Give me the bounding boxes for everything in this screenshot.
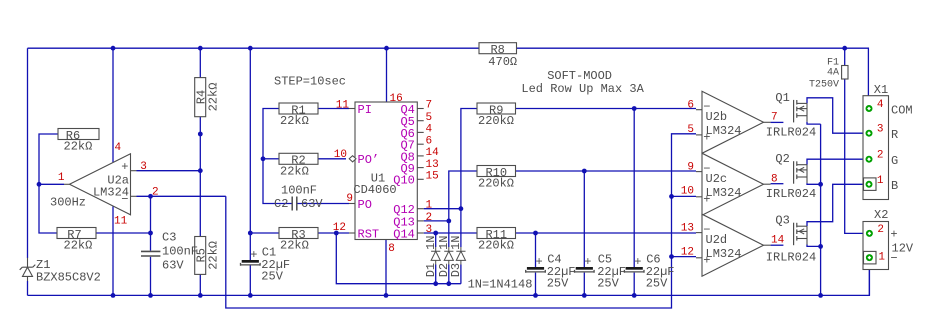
node junction +12V / U2a pin4	[111, 46, 116, 51]
wire U1 Q14 pin 3 to R11	[424, 232, 477, 234]
node junction U2a pin11 / ground	[111, 293, 116, 298]
wire D1 bottom	[435, 265, 437, 284]
wire X2 pin 1 to ground rail	[868, 261, 870, 296]
node junction C6 / ground	[632, 293, 637, 298]
node junction R11 / C4	[533, 231, 538, 236]
resistor R8	[479, 43, 517, 54]
connector X1 pin 3	[866, 130, 873, 137]
svg-text:−: −	[703, 162, 710, 176]
svg-text:22kΩ: 22kΩ	[206, 83, 220, 112]
resistor R4	[195, 78, 206, 117]
wire D3 bottom	[460, 265, 462, 284]
wire U1 Q13 pin 2	[424, 220, 449, 222]
svg-text:16: 16	[390, 93, 403, 105]
svg-text:+: +	[535, 255, 542, 269]
svg-text:1: 1	[878, 252, 885, 264]
svg-text:LM324: LM324	[706, 124, 742, 138]
node junction D2 / return	[446, 281, 451, 286]
node junction source bus / ground	[818, 293, 823, 298]
node junction +12V / C1	[248, 46, 253, 51]
wire R10 right to U2c - input	[516, 170, 697, 172]
diode D3 1N4148	[456, 247, 465, 265]
node junction R3-RST / diode return	[334, 231, 339, 236]
svg-text:5: 5	[426, 112, 433, 124]
svg-text:10: 10	[334, 149, 347, 161]
wire source bus to ground	[820, 124, 822, 295]
svg-text:6: 6	[426, 135, 433, 147]
resistor R1	[279, 103, 318, 114]
wire R1 right to U1 PI	[318, 108, 349, 110]
connector X1 pin 2	[866, 156, 873, 163]
wire +12V top rail	[28, 47, 480, 49]
wire Q13 up to R10	[449, 171, 477, 221]
svg-text:4: 4	[426, 124, 433, 136]
capacitor C4 (electrolytic)	[527, 267, 544, 270]
node junction R9 / C6	[632, 106, 637, 111]
svg-text:D1: D1	[424, 263, 438, 277]
svg-text:2: 2	[877, 150, 884, 162]
fuse F1 4A T250V	[842, 66, 848, 80]
svg-text:1N: 1N	[424, 235, 438, 249]
svg-text:IRLR024: IRLR024	[766, 126, 816, 140]
svg-text:LM324: LM324	[706, 247, 742, 261]
svg-text:−: −	[703, 223, 710, 237]
svg-text:9: 9	[687, 162, 694, 174]
wire C6 branch down	[633, 109, 635, 268]
wire feedback node R6/R7/output of U2a	[39, 134, 59, 233]
wire U2b output to Q1 gate	[771, 121, 784, 123]
wire R1/R2/C2 left chain	[263, 109, 292, 204]
node junction Q2 source / source bus	[818, 182, 823, 187]
svg-text:7: 7	[771, 111, 778, 123]
wire U2a pin 11 to ground rail	[112, 207, 114, 296]
svg-text:LM324: LM324	[706, 186, 742, 200]
wire C5 branch down	[583, 171, 585, 267]
svg-text:SOFT-MOOD: SOFT-MOOD	[547, 69, 612, 83]
svg-text:−: −	[121, 192, 128, 206]
transistor Q3 IRLR024	[793, 223, 795, 246]
wire Q1 source jog	[807, 122, 821, 124]
wire U2a pin 3 to R4/R5 divider node	[137, 170, 201, 172]
wire R2 left branch	[263, 158, 279, 160]
wire R4/R5 divider vertical	[199, 48, 201, 295]
node junction Q3 source / source bus	[818, 244, 823, 249]
svg-text:9: 9	[346, 193, 353, 205]
svg-text:PI: PI	[358, 103, 372, 117]
wire U1 Q12 pin 1	[424, 208, 461, 210]
node junction Vref / U2d+	[669, 254, 674, 259]
node junction R7 / C3	[148, 231, 153, 236]
wire R11 right to U2d - input	[516, 232, 697, 234]
connector X1 pin 1	[866, 181, 873, 188]
svg-text:12: 12	[681, 247, 694, 259]
node junction Q12 / D3	[459, 206, 464, 211]
svg-text:25V: 25V	[261, 270, 283, 284]
node junction Vref / U2c+	[669, 194, 674, 199]
svg-text:B: B	[891, 179, 898, 193]
svg-text:IRLR024: IRLR024	[766, 187, 816, 201]
capacitor C1 (electrolytic)	[242, 260, 259, 263]
svg-text:14: 14	[771, 234, 785, 246]
svg-text:63V: 63V	[162, 258, 184, 272]
svg-text:22kΩ: 22kΩ	[280, 239, 309, 253]
svg-text:+: +	[584, 255, 591, 269]
node junction divider / pin3	[198, 168, 203, 173]
svg-text:Q3: Q3	[775, 214, 789, 228]
wire C6 lower to ground	[633, 273, 635, 296]
svg-text:1: 1	[426, 200, 433, 212]
op-amp U2c LM324	[702, 153, 764, 215]
svg-text:4A: 4A	[827, 68, 839, 79]
svg-text:X1: X1	[874, 83, 888, 97]
svg-text:COM: COM	[891, 103, 913, 117]
capacitor C3 100nF 63V	[141, 251, 160, 256]
node junction +12V / R4	[198, 46, 203, 51]
node junction C5 / ground	[582, 293, 587, 298]
svg-text:R: R	[891, 128, 898, 142]
svg-text:+: +	[703, 131, 710, 145]
wire C1 lower to ground	[249, 265, 251, 295]
svg-text:8: 8	[771, 173, 778, 185]
svg-text:3: 3	[877, 124, 884, 136]
wire Q3 source jog	[807, 245, 821, 247]
svg-text:5: 5	[687, 124, 694, 136]
wire C1 vertical +12V to ground	[249, 48, 251, 260]
resistor R7	[57, 228, 96, 239]
connector X2 body	[863, 222, 889, 270]
wire +12V top rail right segment to X1 COM	[517, 48, 869, 107]
svg-text:2: 2	[426, 212, 433, 224]
U1 inverted-output marker on PO'	[349, 156, 356, 162]
svg-text:3: 3	[140, 161, 147, 173]
diode D1 1N4148	[431, 247, 440, 265]
wire Q1 drain to X1 pin 3 R	[807, 98, 866, 133]
svg-text:13: 13	[681, 223, 694, 235]
zener diode Z1 BZX85C8V2	[20, 258, 36, 281]
wire R3 right to U1 RST	[318, 232, 349, 234]
svg-text:−: −	[890, 252, 897, 266]
svg-text:+: +	[703, 254, 710, 268]
wire U2a output pin 1	[39, 183, 64, 185]
resistor R11	[477, 228, 516, 239]
wire left rail upper (to zener Z1)	[27, 48, 29, 258]
wire R2 right to U1 PO'	[318, 158, 346, 160]
svg-text:22kΩ: 22kΩ	[64, 140, 93, 154]
svg-text:PO: PO	[358, 198, 372, 212]
node junction C3 / ground	[148, 293, 153, 298]
op-amp U2b LM324	[702, 91, 764, 153]
svg-text:+: +	[250, 248, 257, 262]
svg-text:3: 3	[426, 224, 433, 236]
wire U2d output to Q3 gate	[771, 244, 784, 246]
node junction C1 / ground	[248, 293, 253, 298]
svg-text:11: 11	[114, 216, 128, 228]
resistor R2	[279, 153, 318, 164]
svg-text:220kΩ: 220kΩ	[478, 239, 514, 253]
node junction U2a output node	[37, 182, 42, 187]
node junction C1 / R3	[248, 231, 253, 236]
svg-text:8: 8	[388, 243, 395, 255]
node junction +12V / fuse F1	[842, 46, 847, 51]
node junction pin2 / C3 node	[148, 194, 153, 199]
wire Q12 up to R9	[461, 109, 477, 209]
diode D2 1N4148	[444, 247, 453, 265]
svg-text:10: 10	[681, 186, 694, 198]
resistor R6	[58, 129, 99, 140]
node junction C4 / ground	[533, 293, 538, 298]
wire Q14 down to D1	[435, 233, 437, 247]
wire U2a pin 4 to +12V rail	[112, 48, 114, 162]
wire U2a pin 2 node	[137, 195, 226, 197]
wire D2 bottom	[448, 265, 450, 284]
wire R9 right to U2b - input	[516, 108, 697, 110]
wire C3 node vertical upper	[150, 196, 152, 250]
op-amp U2a LM324 (oscillator)	[70, 154, 131, 215]
node junction divider / R6	[198, 132, 203, 137]
svg-text:22kΩ: 22kΩ	[206, 241, 220, 270]
transistor Q1 IRLR024	[793, 100, 795, 123]
capacitor C2 100nF 63V	[292, 197, 297, 211]
wire ground bottom rail	[28, 261, 870, 296]
svg-text:T250V: T250V	[809, 80, 839, 91]
svg-text:−: −	[703, 100, 710, 114]
svg-text:2: 2	[152, 187, 159, 199]
svg-text:300Hz: 300Hz	[50, 196, 86, 210]
wire fuse F1 line from +12V rail to X2 pin 2	[845, 48, 867, 233]
connector X2 pin 1	[866, 254, 873, 261]
svg-text:IRLR024: IRLR024	[766, 251, 816, 265]
node junction R5 / ground	[198, 293, 203, 298]
resistor R5	[195, 237, 206, 275]
wire U1 pin 16 to +12V rail	[386, 48, 388, 102]
resistor R9	[477, 103, 516, 114]
svg-text:22kΩ: 22kΩ	[280, 114, 309, 128]
node junction R10 / C5	[582, 169, 587, 174]
wire Q13 down to D2	[448, 221, 450, 247]
svg-text:1: 1	[58, 172, 65, 184]
resistor R3	[279, 228, 318, 239]
svg-text:63V: 63V	[301, 197, 323, 211]
svg-text:D3: D3	[449, 263, 463, 277]
connector X1 pin 4	[866, 105, 873, 112]
wire C2 right to U1 PO	[297, 203, 349, 205]
svg-text:+: +	[890, 228, 897, 242]
svg-text:PO’: PO’	[358, 153, 380, 167]
svg-text:25V: 25V	[547, 277, 569, 291]
wire left rail lower (zener to ground rail)	[27, 281, 29, 295]
svg-text:470Ω: 470Ω	[488, 55, 517, 69]
svg-text:CD4060: CD4060	[353, 183, 396, 197]
wire U2c + input branch	[672, 195, 697, 197]
svg-text:C2: C2	[274, 197, 288, 211]
wire R7 right to C3 node	[96, 232, 151, 234]
svg-text:STEP=10sec: STEP=10sec	[274, 75, 346, 89]
svg-text:1N=1N4148: 1N=1N4148	[468, 278, 533, 292]
wire C5 lower to ground	[583, 273, 585, 296]
svg-text:+: +	[634, 255, 641, 269]
wire Q2 source jog	[807, 183, 821, 184]
svg-text:15: 15	[426, 171, 439, 183]
svg-text:13: 13	[426, 159, 439, 171]
wire C4 branch down	[535, 233, 537, 267]
svg-text:22kΩ: 22kΩ	[64, 239, 93, 253]
wire R3 left to C1 node	[250, 232, 279, 234]
svg-text:4: 4	[115, 142, 122, 154]
wire U1 pin 8 to ground rail	[385, 240, 387, 296]
svg-text:X2: X2	[874, 208, 888, 222]
connector X1 body	[863, 96, 889, 200]
svg-text:25V: 25V	[597, 277, 619, 291]
svg-text:25V: 25V	[646, 277, 668, 291]
svg-text:100nF: 100nF	[162, 245, 198, 259]
wire RST to diode return	[336, 233, 461, 284]
node junction Q13 / D2	[446, 219, 451, 224]
svg-text:4: 4	[877, 99, 884, 111]
capacitor C6 (electrolytic)	[626, 267, 643, 270]
svg-text:100nF: 100nF	[281, 184, 317, 198]
svg-text:1N: 1N	[449, 235, 463, 249]
svg-text:22kΩ: 22kΩ	[280, 164, 309, 178]
svg-text:Q2: Q2	[775, 152, 789, 166]
svg-text:+: +	[703, 193, 710, 207]
node junction Q14 / D1	[433, 231, 438, 236]
node junction D1 / return	[433, 281, 438, 286]
IC U1 CD4060 body	[355, 102, 417, 240]
wire C3 node vertical lower to ground	[150, 257, 152, 296]
svg-text:G: G	[891, 154, 898, 168]
svg-text:Q1: Q1	[775, 91, 789, 105]
wire U2d + input branch	[672, 256, 697, 258]
svg-text:7: 7	[426, 100, 433, 112]
svg-text:11: 11	[336, 100, 350, 112]
capacitor C5 (electrolytic)	[576, 267, 593, 270]
svg-text:+: +	[121, 160, 128, 174]
resistor R10	[477, 166, 516, 177]
svg-text:BZX85C8V2: BZX85C8V2	[36, 270, 101, 284]
node junction U1 pin8 / ground	[384, 293, 389, 298]
svg-text:Led Row Up Max 3A: Led Row Up Max 3A	[521, 82, 644, 96]
svg-text:12: 12	[333, 222, 346, 234]
wire Q2 drain to X1 pin 2 G	[807, 159, 866, 165]
wire U2c output to Q2 gate	[771, 183, 784, 185]
svg-text:220kΩ: 220kΩ	[478, 114, 514, 128]
svg-text:220kΩ: 220kΩ	[478, 177, 514, 191]
node junction R1R2C2 chain / R2	[261, 156, 266, 161]
svg-text:14: 14	[426, 147, 440, 159]
connector X2 pin 2	[866, 230, 873, 237]
op-amp U2d LM324	[702, 214, 764, 276]
transistor Q2 IRLR024	[793, 161, 795, 184]
svg-text:Q14: Q14	[393, 227, 415, 241]
connector X2 pin 1 square marker	[864, 251, 877, 264]
svg-text:1: 1	[877, 175, 884, 187]
wire Q3 drain to X1 pin 1 B	[807, 184, 866, 226]
connector X1 pin 1 square marker	[864, 178, 877, 191]
svg-text:C3: C3	[162, 231, 176, 245]
svg-text:6: 6	[687, 100, 694, 112]
wire C4 lower to ground	[535, 273, 537, 296]
node junction +12V / U1 pin16	[384, 46, 389, 51]
wire Vref route down right	[226, 134, 696, 308]
svg-text:2: 2	[877, 224, 884, 236]
wire Q12 down to D3	[460, 209, 462, 247]
svg-text:RST: RST	[358, 227, 380, 241]
